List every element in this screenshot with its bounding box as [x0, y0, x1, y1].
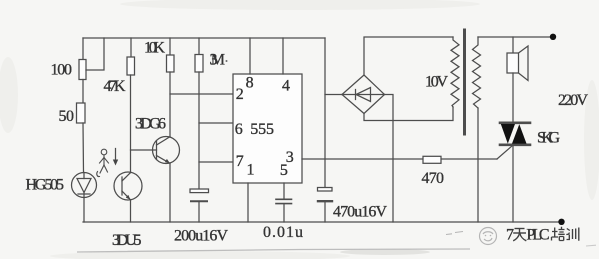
svg-text:6: 6: [235, 121, 243, 138]
transistor 3DG6 base bar: [156, 141, 158, 160]
pin 5 wire: [283, 183, 285, 199]
capacitor 470u16V bottom plate: [318, 200, 332, 202]
wire left branch upper: [82, 38, 84, 60]
wire speaker stub: [512, 37, 514, 53]
phototransistor 3DU5 emitter diagonal: [122, 191, 131, 200]
resistor 100: [79, 60, 86, 80]
wire bridge left to DC+: [325, 94, 342, 96]
wire pin2 to 10K vertical: [170, 93, 233, 95]
svg-text:1: 1: [247, 162, 255, 179]
resistor 470: [423, 156, 441, 163]
diode HG505 triangle: [77, 179, 91, 193]
diode HG505 circle: [72, 173, 97, 198]
phototransistor 3DU5 base bar: [121, 177, 123, 195]
wire 3DG6 emitter to ground: [169, 163, 171, 222]
svg-text:SKG: SKG: [537, 129, 560, 146]
diode HG505 internal lead: [83, 173, 85, 198]
wire bridge right to ground: [385, 95, 394, 223]
scan artifact gray line: [77, 249, 470, 252]
wire pin7 to 3M vertical: [199, 161, 233, 163]
transformer core bar: [463, 30, 466, 134]
transistor 3DG6 circle: [153, 137, 180, 164]
svg-text:HG505: HG505: [26, 177, 65, 194]
svg-text:100: 100: [51, 62, 73, 79]
bridge diode cathode bar: [355, 90, 357, 100]
transformer secondary winding: [451, 37, 459, 107]
wire 47K to 3DU5 collector: [130, 75, 132, 173]
svg-text:10K: 10K: [144, 40, 165, 57]
wire DC+ vertical: [324, 38, 326, 188]
svg-text:7: 7: [236, 153, 244, 170]
wire 3DU5 emitter to ground: [130, 200, 132, 222]
wire primary top to 220V dot: [478, 36, 553, 38]
wire 470u16V to ground: [324, 201, 326, 222]
wire pin3 output line: [302, 158, 497, 160]
phototransistor 3DU5 emitter arrow: [126, 195, 131, 200]
svg-text:50: 50: [59, 108, 75, 125]
transformer primary winding: [473, 37, 481, 108]
capacitor 200u16V bottom plate: [191, 200, 207, 202]
transistor 3DG6 collector diagonal: [157, 137, 171, 145]
capacitor 470u16V top plate: [318, 188, 333, 192]
stick figure person: [97, 149, 109, 176]
wire top VCC rail: [83, 37, 325, 39]
wire pin6 to 3M vertical: [199, 122, 233, 124]
pin 1 wire: [247, 183, 249, 222]
resistor 47K: [127, 57, 135, 75]
svg-text:555: 555: [250, 121, 274, 138]
wire speaker to triac: [512, 73, 514, 123]
hanzi xun: [566, 228, 579, 241]
svg-text:470u16V: 470u16V: [333, 204, 387, 221]
wire 50 to HG505: [82, 123, 85, 173]
wire tap from 100 to rail: [86, 38, 104, 70]
svg-text:47K: 47K: [104, 78, 126, 95]
capacitor 200u16V top plate: [190, 189, 209, 193]
svg-text:3M: 3M: [210, 52, 226, 69]
triac SKG top bar: [500, 122, 530, 125]
resistor 3M: [195, 55, 203, 73]
wire bridge top to secondary top: [364, 37, 453, 75]
svg-text:8: 8: [246, 75, 254, 92]
node terminal dot top right: [550, 34, 556, 40]
wire primary bottom to ground rail: [477, 108, 479, 222]
phototransistor 3DU5 circle: [114, 172, 142, 200]
wire 200u16V to ground: [198, 201, 200, 222]
wire 100 to 50: [82, 80, 84, 104]
svg-text:220V: 220V: [558, 92, 588, 109]
wire ground bottom rail: [83, 221, 562, 223]
wire HG505 to ground rail: [83, 198, 85, 223]
bridge diode triangle: [356, 88, 371, 102]
wire 3M down to 200u16V: [198, 72, 200, 189]
svg-text:200u16V: 200u16V: [174, 228, 228, 245]
capacitor 0.01u plates: [276, 199, 292, 203]
svg-text:2: 2: [236, 86, 244, 103]
watermark logo circle: [446, 228, 497, 245]
resistor 3M vertical wire top: [198, 38, 200, 55]
pin 8 wire: [249, 38, 251, 74]
hanzi pei: [552, 227, 565, 241]
bridge axis line: [342, 94, 385, 96]
resistor 47K vertical wire top: [130, 38, 132, 57]
transistor 3DG6 emitter arrow: [165, 159, 170, 164]
triac SKG bottom bar: [500, 144, 530, 147]
diode HG505 cathode bar: [78, 193, 90, 195]
triac SKG left triangle: [501, 124, 515, 144]
svg-text:PLC: PLC: [526, 226, 549, 243]
svg-text:3DG6: 3DG6: [135, 116, 166, 133]
svg-text:4: 4: [282, 78, 290, 95]
hanzi tian: [513, 229, 526, 241]
light arrow down: [115, 149, 117, 163]
transistor 3DG6 emitter diagonal: [157, 156, 171, 164]
bridge rectifier diamond: [342, 75, 385, 114]
svg-text:0.01u: 0.01u: [263, 224, 303, 241]
phototransistor 3DU5 collector diagonal: [122, 173, 131, 181]
speaker horn: [519, 46, 529, 81]
light arrow head: [113, 160, 118, 166]
triac SKG right triangle: [512, 124, 527, 143]
resistor 50: [77, 103, 86, 123]
node terminal dot bottom right: [558, 219, 564, 225]
svg-text:3DU5: 3DU5: [112, 232, 142, 249]
speaker box: [507, 53, 519, 73]
IC 555 box: [233, 74, 302, 183]
resistor 10K vertical wire top: [169, 38, 171, 55]
svg-text:7: 7: [506, 226, 514, 243]
scan artifact small marks bottom right: [586, 244, 596, 247]
pin 4 wire: [282, 38, 284, 74]
svg-text:10V: 10V: [425, 74, 448, 91]
wire triac to ground rail: [512, 145, 514, 222]
svg-text:5: 5: [280, 162, 288, 179]
wire 10K to 3DG6 collector: [169, 72, 171, 137]
wire 3DG6 base lead: [131, 149, 157, 151]
wire 0.01u to ground: [283, 204, 285, 222]
svg-text:470: 470: [422, 170, 445, 187]
triac gate wire: [497, 146, 513, 160]
resistor 10K: [167, 55, 175, 72]
wire bridge bottom to secondary bottom: [364, 107, 453, 121]
watermark text 7天PLC培训: [506, 226, 579, 243]
